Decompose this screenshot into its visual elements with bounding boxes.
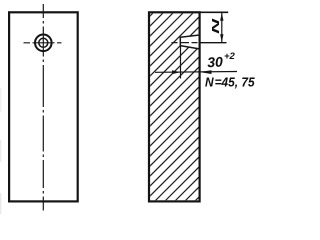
horizontal centerline of hole (left view) bbox=[24, 42, 62, 44]
section view outline bbox=[149, 12, 200, 201]
left view outline (front view of plate) bbox=[9, 12, 78, 201]
N dimension arrowhead top bbox=[220, 13, 223, 21]
N dimension: top extension line (top face extended) bbox=[200, 11, 229, 13]
section view hatching bbox=[149, 11, 320, 240]
hole outline in section: flat inner face bbox=[179, 37, 181, 47]
hole inner circle bbox=[39, 38, 48, 47]
hole outline in section: top taper line bbox=[180, 35, 198, 37]
svg-text:N: N bbox=[211, 17, 222, 34]
hole cavity in section (white, interrupts hatching) bbox=[180, 35, 198, 49]
N dimension arrowhead bottom bbox=[220, 34, 223, 42]
svg-text:N =45, 75: N =45, 75 bbox=[205, 75, 256, 89]
svg-text:30: 30 bbox=[207, 53, 224, 70]
hole centerline in section view bbox=[172, 42, 201, 44]
30 dimension line (horizontal) bbox=[155, 71, 237, 74]
vertical centerline of left view bbox=[42, 4, 44, 211]
hole outer circle (countersink opening) bbox=[35, 35, 52, 52]
30 dimension arrowhead right (points left at surface) bbox=[199, 70, 212, 74]
N dimension line (vertical) bbox=[221, 12, 223, 42]
30 dimension: extension line from hole inner face bbox=[180, 44, 182, 78]
svg-text:+2: +2 bbox=[224, 51, 236, 62]
30 dimension arrowhead left (points right at extension line) bbox=[172, 70, 181, 74]
hole outline in section: bottom taper line bbox=[180, 46, 198, 49]
N dimension: bottom extension line (hole axis extended) bbox=[200, 42, 227, 44]
scan artifact marks at left edge bbox=[0, 88, 1, 214]
